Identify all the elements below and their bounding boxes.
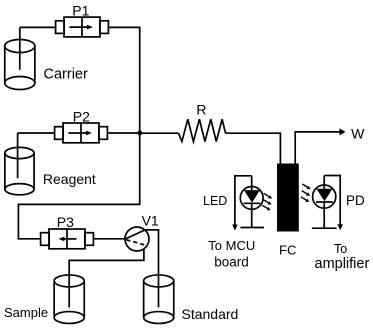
- node junction: [137, 131, 142, 136]
- pump P2: [55, 123, 108, 143]
- wire trunk down to P3: [18, 133, 139, 239]
- svg-text:P2: P2: [73, 108, 90, 124]
- wire Reagent to P2: [18, 132, 55, 134]
- svg-text:P1: P1: [72, 2, 89, 18]
- svg-text:Standard: Standard: [182, 306, 239, 322]
- wire PD to amplifier arrow: [324, 176, 343, 231]
- svg-text:P3: P3: [57, 214, 74, 230]
- wire FC outlet to waste: [295, 132, 341, 164]
- pump P1: [56, 17, 109, 37]
- svg-text:Reagent: Reagent: [43, 171, 96, 187]
- svg-text:V1: V1: [142, 213, 159, 229]
- reservoir Carrier bottle: [5, 40, 35, 90]
- reservoir Standard bottle: [144, 275, 174, 324]
- wire LED to MCU arrow: [232, 176, 252, 231]
- valve V1: [125, 227, 149, 251]
- reservoir Reagent bottle: [5, 147, 34, 194]
- wire Carrier to P1: [20, 26, 56, 28]
- wire P1 output to trunk: [108, 27, 140, 133]
- tube into Reagent: [17, 133, 19, 178]
- reservoir Sample bottle: [54, 275, 84, 324]
- pump P3: [41, 229, 94, 249]
- LED light rays: [262, 193, 272, 210]
- svg-text:Sample: Sample: [4, 305, 48, 320]
- svg-text:Carrier: Carrier: [44, 67, 88, 83]
- PD light rays: [301, 184, 311, 202]
- LED: [240, 176, 264, 228]
- flow cell FC: [277, 164, 299, 232]
- wire V1 to Sample: [69, 249, 144, 308]
- photodiode PD: [312, 176, 337, 229]
- wire P2 output to node: [107, 132, 140, 134]
- svg-text:R: R: [196, 101, 206, 117]
- svg-text:amplifier: amplifier: [315, 256, 370, 272]
- svg-text:To MCU: To MCU: [208, 238, 255, 253]
- svg-text:LED: LED: [203, 194, 227, 208]
- wire node to resistor: [140, 132, 179, 134]
- wire P3 to V1: [93, 238, 125, 240]
- svg-text:W: W: [351, 126, 365, 142]
- wire V1 to Standard: [145, 230, 158, 308]
- wire resistor to FC inlet: [226, 133, 281, 163]
- svg-text:PD: PD: [346, 193, 365, 208]
- svg-text:FC: FC: [279, 243, 296, 258]
- svg-text:board: board: [214, 255, 249, 270]
- resistor R: [179, 119, 226, 141]
- svg-text:To: To: [334, 242, 347, 256]
- arrow to W: [340, 128, 346, 135]
- tube into Carrier: [19, 27, 21, 69]
